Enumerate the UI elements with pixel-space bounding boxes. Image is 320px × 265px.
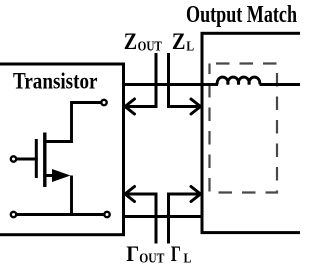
wire from inductor to right edge bbox=[260, 83, 301, 86]
wire source rail bbox=[17, 213, 104, 216]
transistor Q1 gate terminal bbox=[11, 156, 16, 161]
matching network dashed box bbox=[210, 64, 278, 193]
svg-text:Γ: Γ bbox=[126, 241, 139, 265]
source rail right terminal bbox=[104, 212, 109, 217]
svg-text:L: L bbox=[184, 250, 192, 265]
transistor block box bbox=[0, 64, 124, 235]
svg-text:OUT: OUT bbox=[139, 250, 164, 265]
wire source lead bbox=[45, 176, 72, 215]
reference plane tick Z_L (top right) bbox=[167, 53, 170, 108]
wire drain lead bbox=[45, 103, 101, 142]
svg-text:L: L bbox=[186, 39, 194, 54]
wire gate lead bbox=[17, 158, 38, 161]
arrow left (top, toward transistor) bbox=[125, 99, 156, 114]
inductor L1 bbox=[217, 77, 260, 84]
wire output (top) bbox=[124, 83, 204, 86]
transistor Q1 source arrow bbox=[52, 169, 71, 182]
svg-text:Γ: Γ bbox=[171, 241, 181, 265]
output match box bbox=[202, 33, 312, 232]
svg-text:Transistor: Transistor bbox=[13, 69, 98, 95]
wire output (bottom) bbox=[124, 215, 204, 218]
arrow left (bottom, toward transistor) bbox=[125, 187, 156, 202]
transistor Q1 channel bar bbox=[43, 133, 46, 188]
transistor Q1 gate bar bbox=[35, 139, 38, 178]
source rail left terminal bbox=[11, 212, 16, 217]
reference plane tick Z_OUT (top left) bbox=[155, 53, 158, 108]
reference plane tick Gamma_L (bottom right) bbox=[167, 193, 170, 244]
transistor Q1 drain terminal bbox=[101, 100, 106, 105]
svg-text:Output Match: Output Match bbox=[186, 2, 297, 28]
svg-text:OUT: OUT bbox=[138, 38, 162, 53]
svg-text:Z: Z bbox=[172, 29, 186, 54]
arrow right (bottom, toward output match) bbox=[169, 187, 201, 202]
reference plane tick Gamma_OUT (bottom left) bbox=[155, 193, 158, 244]
wire into inductor bbox=[202, 83, 218, 86]
arrow right (top, toward output match) bbox=[169, 99, 201, 114]
svg-text:Z: Z bbox=[124, 29, 137, 54]
